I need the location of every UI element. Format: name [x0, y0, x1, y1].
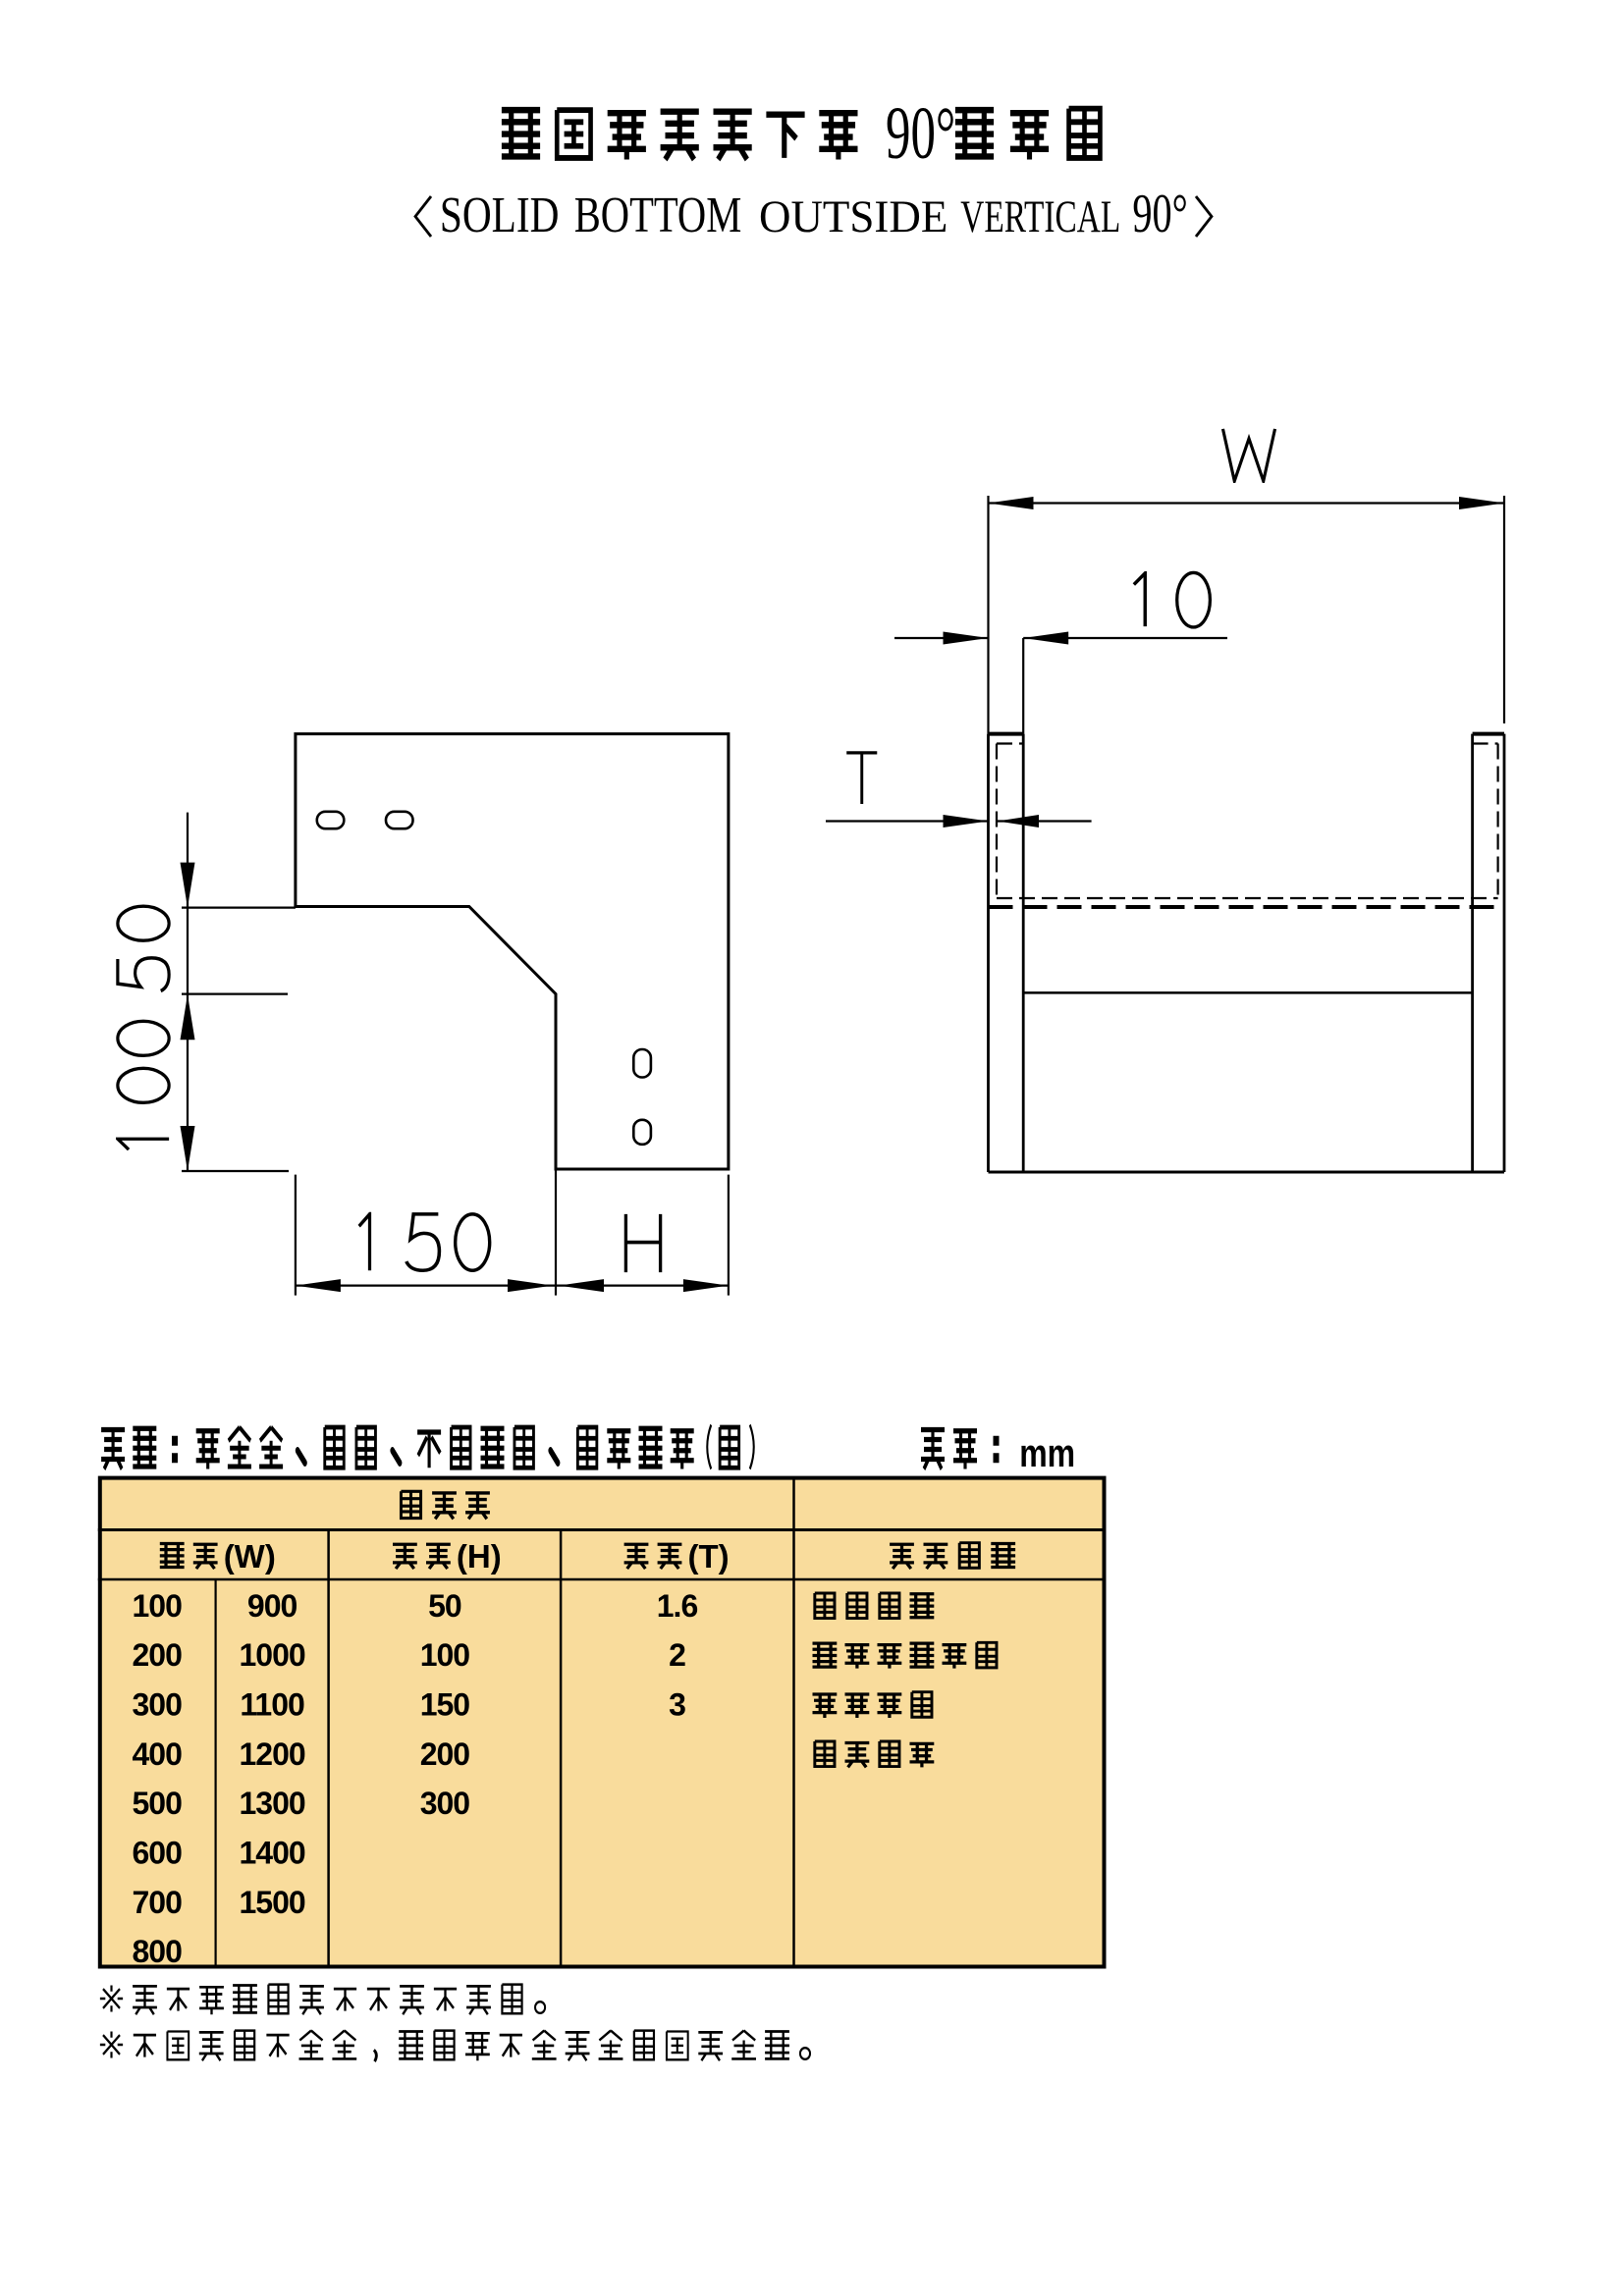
svg-text:600: 600 — [133, 1836, 183, 1871]
svg-text:900: 900 — [247, 1588, 298, 1624]
svg-text:1400: 1400 — [240, 1836, 305, 1871]
svg-text:100: 100 — [420, 1637, 470, 1673]
svg-text:2: 2 — [669, 1637, 685, 1673]
svg-text:50: 50 — [428, 1588, 461, 1624]
svg-text:100: 100 — [133, 1588, 183, 1624]
svg-text:1300: 1300 — [240, 1786, 305, 1821]
svg-text:1500: 1500 — [240, 1885, 305, 1920]
svg-text:90°: 90° — [886, 91, 955, 175]
svg-text:SOLID: SOLID — [440, 187, 560, 244]
svg-text:500: 500 — [133, 1786, 183, 1821]
svg-text:300: 300 — [420, 1786, 470, 1821]
svg-text:VERTICAL: VERTICAL — [960, 190, 1120, 241]
svg-text:1.6: 1.6 — [657, 1588, 698, 1624]
svg-text:700: 700 — [133, 1885, 183, 1920]
svg-text:300: 300 — [133, 1687, 183, 1723]
svg-text:200: 200 — [420, 1736, 470, 1772]
svg-text:1000: 1000 — [240, 1637, 305, 1673]
svg-text:200: 200 — [133, 1637, 183, 1673]
svg-text:1200: 1200 — [240, 1736, 305, 1772]
svg-text:150: 150 — [420, 1687, 470, 1723]
svg-text:OUTSIDE: OUTSIDE — [759, 190, 947, 241]
svg-text:mm: mm — [1019, 1431, 1075, 1475]
svg-text:(T): (T) — [688, 1538, 730, 1575]
svg-text:800: 800 — [133, 1934, 183, 1969]
svg-text:BOTTOM: BOTTOM — [574, 187, 742, 243]
svg-text:1100: 1100 — [240, 1687, 304, 1723]
svg-text:3: 3 — [669, 1687, 685, 1723]
svg-text:(H): (H) — [457, 1538, 502, 1575]
svg-text:(W): (W) — [224, 1538, 276, 1575]
svg-text:400: 400 — [133, 1736, 183, 1772]
svg-text:90°: 90° — [1132, 184, 1187, 244]
